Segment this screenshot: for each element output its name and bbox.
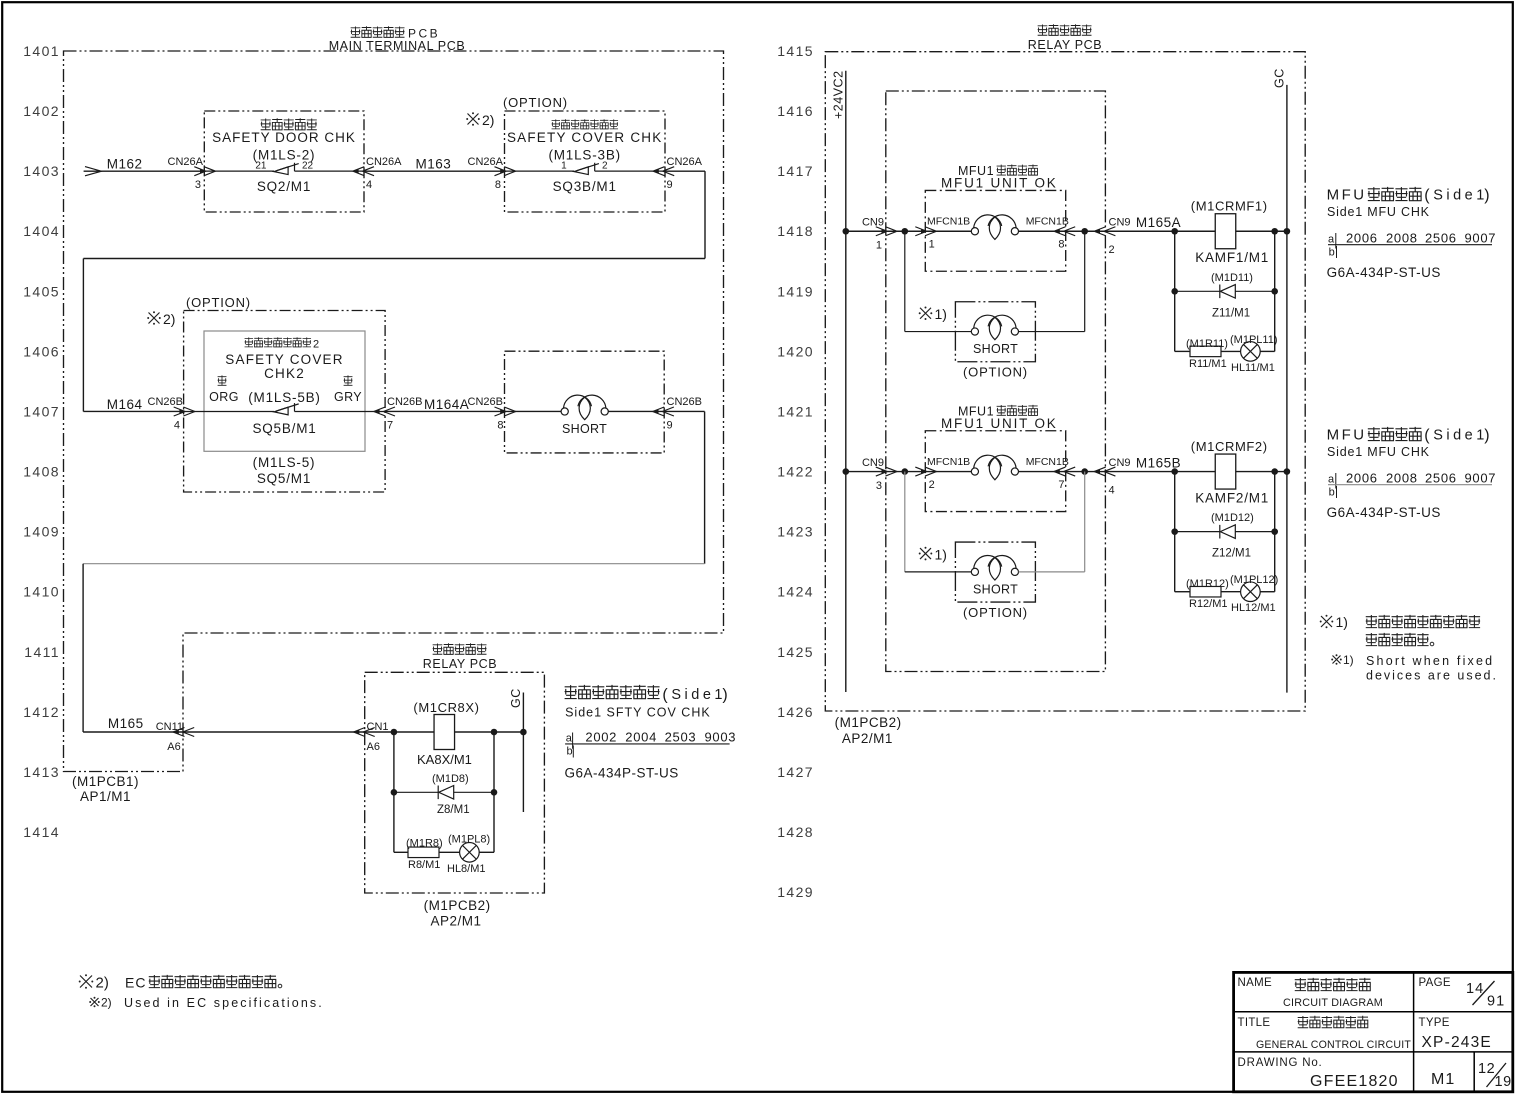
label SAFETY DOOR CHK xyxy=(212,118,356,162)
svg-text:3: 3 xyxy=(195,179,201,191)
svg-text:(: ( xyxy=(1424,187,1430,204)
connector pin MFCN1B 1 xyxy=(915,216,970,251)
svg-text:CN26B: CN26B xyxy=(667,396,702,408)
svg-text:1420: 1420 xyxy=(777,343,814,359)
svg-text:9: 9 xyxy=(667,179,673,191)
svg-text:Side1 MFU CHK: Side1 MFU CHK xyxy=(1327,445,1430,459)
limit switch contact SQ5B (M1LS-5B) xyxy=(184,403,386,415)
svg-text:1404: 1404 xyxy=(23,223,60,239)
diode Z11/M1 (M1D11) xyxy=(1175,272,1275,320)
svg-text:1: 1 xyxy=(929,239,935,251)
svg-text:(M1PL8): (M1PL8) xyxy=(448,834,490,846)
svg-text:8: 8 xyxy=(495,179,501,191)
svg-text:9007: 9007 xyxy=(1465,470,1497,485)
svg-text:1408: 1408 xyxy=(23,464,60,480)
node coil branch right row 1422 xyxy=(1271,468,1278,475)
wire resistor-lamp row 1418 xyxy=(1221,350,1241,352)
label SAFETY COVER CHK xyxy=(507,119,662,162)
wire row 1403 to right riser xyxy=(665,170,705,172)
label SAFETY COVER CHK2 xyxy=(225,337,343,405)
svg-text:Side1: Side1 xyxy=(1433,188,1488,204)
label (M1PCB2) AP2/M1 right xyxy=(835,715,902,746)
svg-text:SAFETY COVER: SAFETY COVER xyxy=(225,352,343,367)
connector symbol MFU row 1418 xyxy=(925,215,1065,240)
svg-text:CN11: CN11 xyxy=(156,721,183,733)
svg-text:MFU: MFU xyxy=(1327,187,1367,204)
svg-text:b: b xyxy=(567,746,573,758)
svg-text:CN26A: CN26A xyxy=(366,156,402,168)
svg-text:1406: 1406 xyxy=(23,343,60,359)
connector pin CN9 3 xyxy=(862,457,897,492)
svg-text:M164: M164 xyxy=(107,397,143,412)
board outline RELAY PCB (right, M1PCB2) xyxy=(825,52,1305,711)
connector symbol SHORT row 1418 xyxy=(971,315,1018,340)
label RELAY PCB left xyxy=(423,643,497,671)
wire branch right down row 1422 xyxy=(1274,472,1276,592)
wire lamp to branch row 1418 xyxy=(1260,350,1275,352)
label RELAY PCB right xyxy=(1028,24,1102,52)
svg-text:a: a xyxy=(566,733,573,745)
svg-text:(M1R8): (M1R8) xyxy=(406,838,443,850)
svg-text:1414: 1414 xyxy=(23,824,60,840)
connector pin CN1 A6 (arrow into RELAY PCB) xyxy=(354,721,389,753)
svg-text:(M1LS-5B): (M1LS-5B) xyxy=(248,390,320,405)
wire branch right down row 1418 xyxy=(1274,231,1276,351)
connector pin CN26A 9 (arrow into SQ3B right) xyxy=(653,156,703,191)
svg-text:): ) xyxy=(722,687,727,704)
wire branch to SHORT left row 1422 xyxy=(905,472,971,572)
title block frame xyxy=(1234,972,1513,1091)
label note ref *2 at SQ5B xyxy=(147,311,175,327)
svg-text:1411: 1411 xyxy=(24,644,60,660)
svg-text:2: 2 xyxy=(602,161,608,172)
svg-text:2): 2) xyxy=(96,975,109,992)
svg-text:SQ5/M1: SQ5/M1 xyxy=(257,471,311,486)
label MAIN TERMINAL PCB xyxy=(329,26,466,53)
wire branch left KA8X down xyxy=(393,732,395,852)
wire M162 entry xyxy=(84,170,205,172)
title block TITLE cell xyxy=(1238,1016,1412,1051)
svg-text:1): 1) xyxy=(935,306,947,322)
svg-text:GC: GC xyxy=(1273,68,1287,88)
label MFU1 UNIT OK row 1422 xyxy=(941,405,1058,432)
node branch left row 1422 xyxy=(902,468,909,475)
svg-text:(OPTION): (OPTION) xyxy=(963,605,1028,620)
wire CN1 to KA8X coil xyxy=(365,731,434,733)
svg-text:SAFETY COVER CHK: SAFETY COVER CHK xyxy=(507,130,662,145)
svg-text:4: 4 xyxy=(174,420,180,432)
connector pin CN26B 4 (arrow into box) xyxy=(148,396,195,432)
svg-text:SHORT: SHORT xyxy=(562,422,607,436)
svg-text:(M1D11): (M1D11) xyxy=(1211,272,1253,284)
connector pin CN26A 4 (arrow into SQ2 right) xyxy=(353,156,402,191)
wire branch left down row 1418 xyxy=(1174,231,1176,351)
svg-text:3: 3 xyxy=(876,480,882,492)
wire left riser down to 1407 xyxy=(82,259,84,412)
svg-text:G6A-434P-ST-US: G6A-434P-ST-US xyxy=(565,766,679,781)
svg-text:4: 4 xyxy=(1109,485,1115,497)
svg-text:AP2/M1: AP2/M1 xyxy=(431,914,482,929)
component box MFU1 UNIT OK row 1422 xyxy=(925,431,1065,512)
svg-text:2006: 2006 xyxy=(1346,230,1378,245)
node junction left KA8X xyxy=(391,729,398,736)
wire MFU out row 1418 xyxy=(1066,230,1106,232)
GC rail (right relay board) xyxy=(1273,68,1287,692)
node diode row right xyxy=(491,789,498,796)
svg-text:1): 1) xyxy=(935,547,947,563)
wire resistor to lamp xyxy=(439,851,460,853)
svg-text:CN9: CN9 xyxy=(1109,457,1131,469)
svg-text:MFU1 UNIT OK: MFU1 UNIT OK xyxy=(941,176,1058,191)
wire M165A xyxy=(1105,230,1215,232)
svg-text:KAMF1/M1: KAMF1/M1 xyxy=(1195,250,1269,265)
svg-text:RELAY PCB: RELAY PCB xyxy=(423,657,497,671)
annotation terminal table a/b 2002 2004 2503 9003 xyxy=(565,730,736,758)
node branch left row 1418 xyxy=(902,228,909,235)
svg-text:1426: 1426 xyxy=(777,704,814,720)
svg-text:2): 2) xyxy=(101,996,112,1010)
lamp HL11/M1 (M1PL11) xyxy=(1230,334,1277,374)
svg-text:12: 12 xyxy=(1478,1061,1495,1077)
relay coil KAMF1/M1 (M1CRMF1) xyxy=(1191,199,1269,265)
node on GC row 1418 xyxy=(1284,228,1291,235)
svg-text:(M1PCB2): (M1PCB2) xyxy=(424,898,491,913)
svg-text:GC: GC xyxy=(509,688,523,708)
svg-text:Used in EC specifications.: Used in EC specifications. xyxy=(124,996,324,1010)
svg-text:b: b xyxy=(1329,246,1335,258)
svg-text:devices are used.: devices are used. xyxy=(1366,669,1498,683)
wire branch to SHORT left row 1418 xyxy=(905,231,971,331)
svg-text:2002: 2002 xyxy=(585,730,617,745)
svg-text:4: 4 xyxy=(366,179,372,191)
wire lamp to branch row 1422 xyxy=(1260,591,1275,593)
svg-text:NAME: NAME xyxy=(1238,977,1272,989)
svg-text:1405: 1405 xyxy=(23,283,60,299)
connector pin MFCN1B 2 xyxy=(915,456,970,491)
svg-text:1402: 1402 xyxy=(23,103,60,119)
svg-text:(M1D12): (M1D12) xyxy=(1211,512,1254,524)
connector pin CN26B 9 (arrow at SHORT right) xyxy=(653,396,702,432)
svg-text:(: ( xyxy=(1424,427,1430,444)
node branch right row 1422 xyxy=(1081,468,1088,475)
annotation terminal table a/b 2006 2008 2506 9007 xyxy=(1328,230,1496,258)
svg-text:): ) xyxy=(1484,187,1489,204)
svg-text:CN26A: CN26A xyxy=(667,156,703,168)
svg-text:CN26B: CN26B xyxy=(387,396,422,408)
svg-text:9003: 9003 xyxy=(705,730,737,745)
svg-text:7: 7 xyxy=(387,420,393,432)
wire M165 xyxy=(83,731,365,733)
note *2 japanese EC xyxy=(79,974,282,991)
svg-text:CHK2: CHK2 xyxy=(264,366,305,381)
svg-text:A6: A6 xyxy=(367,741,380,753)
svg-text:M163: M163 xyxy=(416,157,452,172)
svg-text:9: 9 xyxy=(667,420,673,432)
svg-text:M164A: M164A xyxy=(424,397,469,412)
node diode right row 1418 xyxy=(1271,288,1278,295)
wire color label ORG xyxy=(209,375,239,404)
svg-text:(M1R11): (M1R11) xyxy=(1186,338,1228,350)
node junction on GC line xyxy=(520,729,527,736)
svg-text:(: ( xyxy=(662,687,668,704)
node diode row left xyxy=(391,789,398,796)
node coil branch left row 1418 xyxy=(1171,228,1178,235)
svg-text:HL11/M1: HL11/M1 xyxy=(1231,362,1275,374)
title block TYPE cell xyxy=(1419,1017,1492,1051)
svg-text:CN1: CN1 xyxy=(367,721,389,733)
svg-text:SQ3B/M1: SQ3B/M1 xyxy=(553,179,617,194)
svg-text:CN26B: CN26B xyxy=(148,396,183,408)
svg-text:8: 8 xyxy=(497,420,503,432)
wire M164A xyxy=(385,410,504,412)
svg-text:MFCN1B: MFCN1B xyxy=(1026,216,1069,228)
svg-text:HL12/M1: HL12/M1 xyxy=(1231,602,1276,614)
component box MFU1 UNIT OK row 1418 xyxy=(925,190,1065,271)
annotation MFU CHK title xyxy=(1327,427,1490,445)
svg-text:1407: 1407 xyxy=(23,404,60,420)
svg-text:2506: 2506 xyxy=(1425,230,1457,245)
svg-text:+24VC2: +24VC2 xyxy=(832,70,846,119)
svg-text:A6: A6 xyxy=(167,741,180,753)
wire resistor-lamp row 1422 xyxy=(1221,591,1241,593)
note *2 english Used in EC specifications xyxy=(89,996,324,1011)
label note ref *2 at SQ3B xyxy=(466,112,494,128)
svg-text:(M1CRMF2): (M1CRMF2) xyxy=(1191,439,1268,454)
wire branch SHORT right row 1418 xyxy=(1019,231,1085,331)
svg-text:CN9: CN9 xyxy=(862,457,884,469)
node diode left row 1418 xyxy=(1171,288,1178,295)
node coil branch left row 1422 xyxy=(1171,468,1178,475)
svg-text:a: a xyxy=(1328,233,1335,245)
svg-text:KAMF2/M1: KAMF2/M1 xyxy=(1195,491,1269,506)
wire branch left down row 1422 xyxy=(1174,472,1176,592)
wire coil to GC row 1418 xyxy=(1236,230,1287,232)
arrow M162 direction xyxy=(85,167,101,176)
svg-text:(M1CR8X): (M1CR8X) xyxy=(413,700,479,715)
wire right riser 1407 down to 1410 xyxy=(704,411,706,563)
node junction right KA8X xyxy=(491,729,498,736)
svg-text:M1: M1 xyxy=(1431,1071,1455,1088)
inner dashed box MFU group xyxy=(886,91,1106,672)
svg-text:): ) xyxy=(1484,427,1489,444)
relay coil KAMF2/M1 (M1CRMF2) xyxy=(1191,439,1269,506)
svg-text:2: 2 xyxy=(313,339,319,351)
svg-text:2): 2) xyxy=(163,311,175,327)
svg-text:MFU1 UNIT OK: MFU1 UNIT OK xyxy=(941,416,1058,431)
note *1 english Short when fixed devices are used xyxy=(1331,653,1498,683)
connector pin CN26A 3 (arrow into SQ2) xyxy=(168,156,216,191)
svg-text:b: b xyxy=(1329,486,1335,498)
connector symbol MFU row 1422 xyxy=(925,455,1065,480)
svg-text:MAIN TERMINAL PCB: MAIN TERMINAL PCB xyxy=(329,39,466,53)
svg-text:1410: 1410 xyxy=(23,584,60,600)
diode Z12/M1 (M1D12) xyxy=(1175,512,1275,560)
svg-text:1427: 1427 xyxy=(777,764,814,780)
svg-text:a: a xyxy=(1328,473,1335,485)
svg-text:G6A-434P-ST-US: G6A-434P-ST-US xyxy=(1327,505,1441,520)
annotation terminal table a/b 2006 2008 2506 9007 xyxy=(1328,470,1496,498)
svg-text:1): 1) xyxy=(1343,653,1354,667)
svg-text:Side1: Side1 xyxy=(1433,428,1488,444)
svg-text:1418: 1418 xyxy=(777,223,814,239)
wire coil to GC xyxy=(455,731,524,733)
svg-text:21: 21 xyxy=(255,161,267,172)
svg-text:2004: 2004 xyxy=(625,730,657,745)
svg-text:1401: 1401 xyxy=(23,43,60,59)
connector symbol SHORT row 1422 xyxy=(971,555,1018,580)
svg-text:G6A-434P-ST-US: G6A-434P-ST-US xyxy=(1327,265,1441,280)
connector symbol SHORT xyxy=(505,395,665,420)
title block DRAWING No cell xyxy=(1238,1057,1399,1090)
svg-text:(M1PCB1): (M1PCB1) xyxy=(72,774,139,789)
node diode left row 1422 xyxy=(1171,528,1178,535)
svg-text:(M1D8): (M1D8) xyxy=(432,773,469,785)
svg-text:MFCN1B: MFCN1B xyxy=(1026,456,1069,468)
connector pin CN11 A6 (arrow leaving M1PCB1) xyxy=(156,721,195,753)
svg-text:1424: 1424 xyxy=(777,584,814,600)
annotation MFU CHK title xyxy=(1327,187,1490,205)
wire CN9 to MFCN1B row 1418 xyxy=(886,230,926,232)
svg-text:9007: 9007 xyxy=(1465,230,1497,245)
svg-text:91: 91 xyxy=(1487,994,1505,1010)
node on +24VC2 row 1422 xyxy=(843,468,850,475)
svg-text:Side1 SFTY COV CHK: Side1 SFTY COV CHK xyxy=(565,706,711,720)
svg-text:1417: 1417 xyxy=(777,163,814,179)
svg-text:2008: 2008 xyxy=(1386,470,1418,485)
svg-text:SQ2/M1: SQ2/M1 xyxy=(257,179,311,194)
connector pin CN9 4 xyxy=(1094,457,1130,497)
svg-text:RELAY PCB: RELAY PCB xyxy=(1028,38,1102,52)
label (M1LS-5) SQ5/M1 xyxy=(253,455,316,486)
note *1 japanese xyxy=(1320,614,1480,646)
svg-text:1421: 1421 xyxy=(777,404,814,420)
svg-text:1: 1 xyxy=(876,240,882,252)
svg-text:2: 2 xyxy=(1109,244,1115,256)
svg-text:2: 2 xyxy=(929,479,935,491)
svg-text:SHORT: SHORT xyxy=(973,583,1018,597)
svg-text:1403: 1403 xyxy=(23,163,60,179)
svg-text:1: 1 xyxy=(561,161,567,172)
svg-text:1416: 1416 xyxy=(777,103,814,119)
svg-text:R12/M1: R12/M1 xyxy=(1189,598,1228,610)
svg-text:(M1PL11): (M1PL11) xyxy=(1230,334,1277,346)
svg-text:DRAWING No.: DRAWING No. xyxy=(1238,1057,1323,1069)
svg-text:SAFETY DOOR CHK: SAFETY DOOR CHK xyxy=(212,130,356,145)
resistor R8/M1 (M1R8) xyxy=(394,838,443,872)
wire branch SHORT right row 1422 xyxy=(1019,472,1085,572)
svg-text:1415: 1415 xyxy=(777,43,814,59)
svg-text:SQ5B/M1: SQ5B/M1 xyxy=(252,421,316,436)
limit switch contact SQ3B (M1LS-3B) xyxy=(505,161,666,175)
left margin line numbers 1401-1414 xyxy=(23,43,60,840)
component box SQ2/M1 SAFETY DOOR CHK xyxy=(204,111,364,212)
svg-text:M165: M165 xyxy=(108,716,144,731)
wire 1410 horizontal return (gray) xyxy=(83,563,705,565)
svg-text:AP1/M1: AP1/M1 xyxy=(80,789,131,804)
svg-text:1412: 1412 xyxy=(23,704,60,720)
svg-text:HL8/M1: HL8/M1 xyxy=(447,863,486,875)
svg-text:R11/M1: R11/M1 xyxy=(1189,358,1227,370)
svg-text:MFCN1B: MFCN1B xyxy=(927,216,970,228)
connector pin CN26B 8 (arrow into SHORT box) xyxy=(468,396,516,432)
svg-text:R8/M1: R8/M1 xyxy=(408,859,440,871)
svg-text:CN9: CN9 xyxy=(862,217,884,229)
wire 1404 horizontal return xyxy=(83,258,705,260)
node branch right row 1418 xyxy=(1081,228,1088,235)
annotation SFTY COV CHK title xyxy=(565,685,728,704)
node on GC row 1422 xyxy=(1284,468,1291,475)
svg-text:Side1: Side1 xyxy=(671,687,726,703)
svg-text:(M1LS-3B): (M1LS-3B) xyxy=(548,148,620,163)
label (M1PCB2) AP2/M1 left xyxy=(424,898,491,929)
label (M1PCB1) AP1/M1 xyxy=(72,774,139,804)
svg-text:(OPTION): (OPTION) xyxy=(503,95,568,110)
svg-text:1): 1) xyxy=(1336,614,1348,630)
svg-text:(M1CRMF1): (M1CRMF1) xyxy=(1191,199,1268,214)
svg-text:MFU: MFU xyxy=(1327,427,1367,444)
diode Z8/M1 (M1D8) xyxy=(394,773,494,816)
svg-text:GENERAL CONTROL CIRCUIT: GENERAL CONTROL CIRCUIT xyxy=(1256,1039,1411,1051)
svg-text:ORG: ORG xyxy=(209,390,239,404)
wire lamp to right branch xyxy=(479,851,494,853)
wire CN9 to MFCN1B row 1422 xyxy=(886,471,926,473)
connector pin CN26A 8 (arrow into SQ3B) xyxy=(468,156,516,191)
svg-text:Short when fixed: Short when fixed xyxy=(1366,654,1494,668)
svg-text:1423: 1423 xyxy=(777,524,814,540)
wire M164 lead-in xyxy=(83,410,183,412)
wire color label GRY xyxy=(334,375,362,404)
right margin line numbers 1415-1429 xyxy=(777,43,814,900)
connector pin MFCN1B 8 xyxy=(1026,216,1076,251)
svg-text:(M1R12): (M1R12) xyxy=(1186,578,1229,590)
svg-text:2008: 2008 xyxy=(1386,230,1418,245)
wire left riser down to M165 row xyxy=(82,564,84,732)
connector pin MFCN1B 7 xyxy=(1026,456,1076,491)
svg-text:2506: 2506 xyxy=(1425,470,1457,485)
svg-text:8: 8 xyxy=(1058,239,1064,251)
svg-text:EC: EC xyxy=(125,975,146,991)
svg-text:XP-243E: XP-243E xyxy=(1422,1034,1492,1051)
svg-text:CN9: CN9 xyxy=(1109,217,1131,229)
svg-text:1413: 1413 xyxy=(23,764,60,780)
board outline RELAY PCB (left, M1PCB2) xyxy=(365,672,545,893)
svg-text:SHORT: SHORT xyxy=(973,342,1018,356)
svg-text:GRY: GRY xyxy=(334,390,362,404)
svg-text:PAGE: PAGE xyxy=(1419,977,1451,989)
node diode right row 1422 xyxy=(1271,528,1278,535)
svg-text:7: 7 xyxy=(1058,479,1064,491)
svg-text:1422: 1422 xyxy=(777,464,814,480)
wire right riser down to 1404 xyxy=(704,171,706,258)
svg-text:2006: 2006 xyxy=(1346,470,1378,485)
svg-text:22: 22 xyxy=(302,161,314,172)
limit switch contact SQ2 (M1LS-2) xyxy=(204,161,364,175)
wire M165B xyxy=(1105,471,1215,473)
resistor R11/M1 (M1R11) xyxy=(1175,338,1228,370)
lamp HL12/M1 (M1PL12) xyxy=(1230,574,1278,614)
resistor R12/M1 (M1R12) xyxy=(1175,578,1229,610)
component box SHORT jumper xyxy=(505,351,665,453)
wire row 1407 to right riser xyxy=(664,410,704,412)
svg-text:2): 2) xyxy=(482,112,494,128)
wire +24VC2 to CN9 row 1418 xyxy=(846,230,886,232)
component box SHORT (OPTION) row 1422 xyxy=(955,542,1035,602)
label MFU1 UNIT OK row 1418 xyxy=(941,164,1058,191)
title block PAGE cell xyxy=(1419,977,1506,1010)
svg-text:CN26A: CN26A xyxy=(168,156,204,168)
svg-text:1419: 1419 xyxy=(777,283,814,299)
svg-text:CN26A: CN26A xyxy=(468,156,504,168)
